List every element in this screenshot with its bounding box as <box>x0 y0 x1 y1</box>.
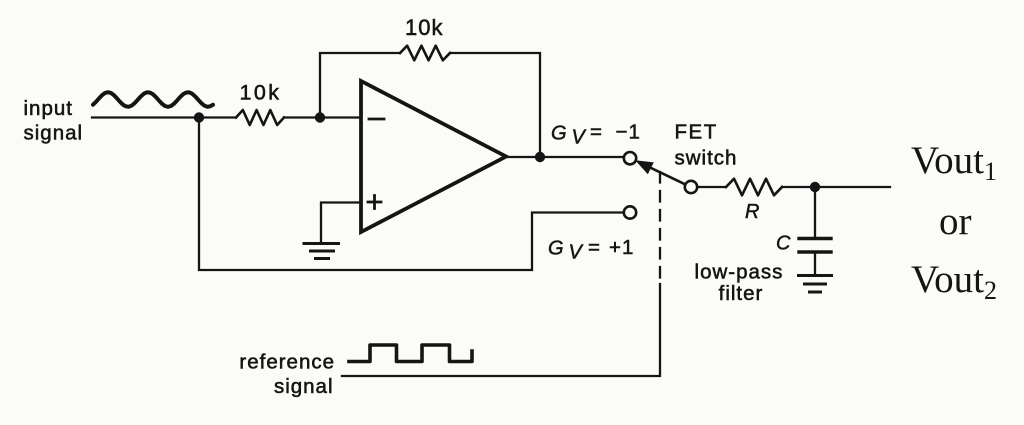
svg-text:filter: filter <box>719 282 764 305</box>
svg-text:FET: FET <box>675 121 718 144</box>
svg-text:switch: switch <box>675 147 738 170</box>
svg-text:reference: reference <box>239 351 335 374</box>
svg-text:low-pass: low-pass <box>695 261 784 284</box>
svg-text:R: R <box>745 201 759 223</box>
svg-text:=: = <box>590 121 603 144</box>
svg-text:10k: 10k <box>405 15 443 40</box>
svg-text:10k: 10k <box>240 81 282 105</box>
svg-text:=: = <box>588 236 601 259</box>
svg-text:−1: −1 <box>616 121 641 144</box>
svg-text:+1: +1 <box>609 236 634 259</box>
svg-text:V: V <box>569 242 584 264</box>
svg-text:C: C <box>776 233 791 255</box>
svg-text:signal: signal <box>24 122 84 145</box>
svg-text:input: input <box>24 97 73 120</box>
svg-text:V: V <box>572 127 587 149</box>
svg-text:or: or <box>939 200 972 243</box>
svg-text:signal: signal <box>274 375 334 398</box>
svg-text:G: G <box>551 123 567 145</box>
svg-text:G: G <box>548 238 564 260</box>
